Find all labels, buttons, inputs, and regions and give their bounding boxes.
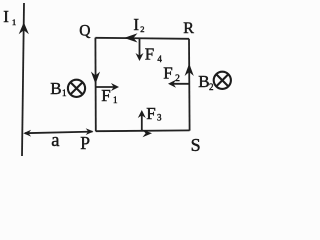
svg-text:1: 1 — [113, 95, 118, 105]
svg-text:F: F — [145, 45, 154, 64]
svg-text:a: a — [51, 131, 59, 151]
svg-text:B: B — [198, 72, 209, 91]
svg-text:2: 2 — [209, 82, 214, 92]
svg-text:P: P — [80, 133, 90, 153]
svg-text:I: I — [3, 7, 9, 26]
svg-text:2: 2 — [175, 74, 180, 84]
svg-text:Q: Q — [79, 22, 90, 39]
svg-text:I: I — [133, 15, 139, 34]
svg-text:F: F — [101, 86, 110, 105]
svg-text:4: 4 — [157, 54, 162, 64]
svg-text:R: R — [183, 20, 194, 37]
svg-text:1: 1 — [62, 88, 67, 98]
svg-text:3: 3 — [157, 113, 162, 123]
svg-text:2: 2 — [140, 24, 144, 34]
svg-text:1: 1 — [12, 17, 16, 27]
svg-text:F: F — [146, 104, 155, 123]
svg-text:S: S — [191, 135, 201, 155]
svg-text:B: B — [50, 79, 61, 98]
svg-text:F: F — [163, 64, 172, 83]
